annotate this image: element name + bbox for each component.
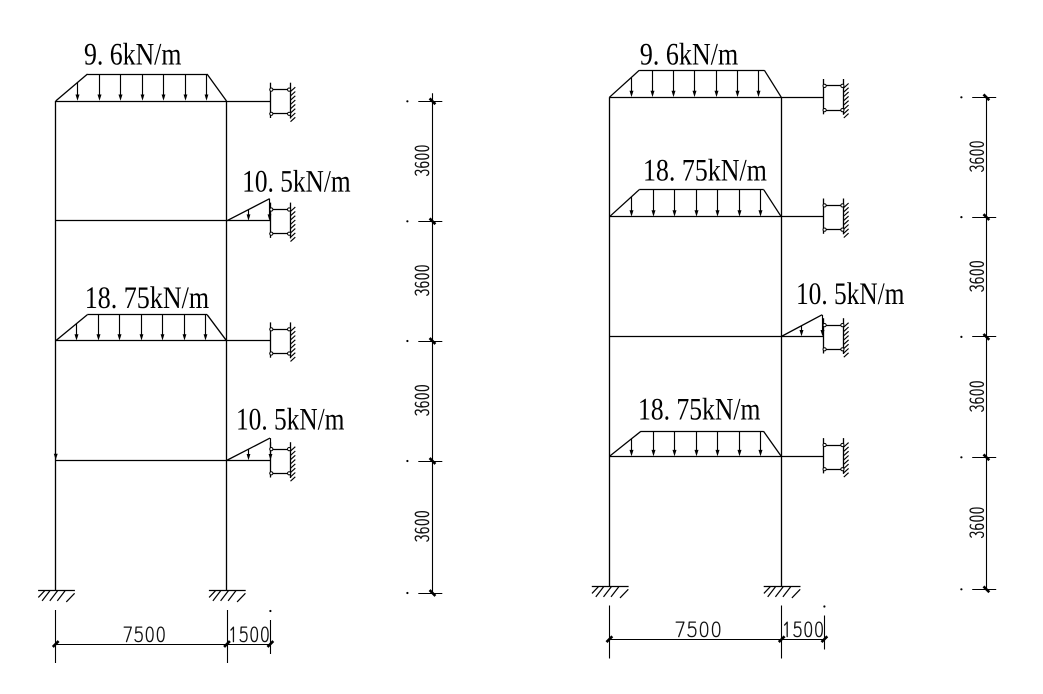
right frame: left column	[609, 97, 611, 586]
dim text 3600 (left frame bay 4)	[415, 512, 428, 541]
link support left frame level 1	[270, 442, 296, 481]
load label 9.6kN/m (right roof)	[641, 43, 738, 65]
link support right frame level 4	[823, 79, 849, 118]
load label 9.6kN/m (left roof)	[85, 43, 181, 65]
fixed support right frame right base	[764, 587, 801, 598]
dim text 3600 (right frame bay 1)	[970, 142, 983, 171]
right frame: right column	[781, 97, 783, 586]
left frame: beam level 1	[56, 460, 271, 462]
triangular load 10.5kN/m (left level 1)	[227, 438, 273, 460]
load label 10.5kN/m (right level 2)	[798, 282, 904, 304]
load label 10.5kN/m (left level 3)	[244, 170, 350, 192]
left frame: left column	[55, 101, 57, 590]
left frame: beam level 2	[56, 340, 271, 342]
right frame: beam level 1	[609, 456, 823, 458]
fixed support right frame left base	[592, 587, 629, 598]
bottom dimension line left frame	[53, 610, 273, 663]
bottom dimension line right frame	[607, 605, 828, 658]
link support right frame level 2	[823, 318, 849, 357]
right frame: beam level 2	[609, 336, 823, 338]
link support left frame level 4	[270, 83, 296, 122]
right frame: beam level 3	[609, 216, 823, 218]
load label 18.75kN/m (right level 3)	[645, 159, 766, 181]
dim text 3600 (right frame bay 2)	[970, 262, 983, 291]
fixed support left frame left base	[38, 591, 75, 602]
link support right frame level 1	[823, 438, 849, 477]
load label 18.75kN/m (right level 1)	[640, 398, 760, 420]
dim text 1500 (right frame)	[785, 622, 823, 637]
left frame: roof beam (level 4)	[56, 101, 271, 103]
triangular load 10.5kN/m (left level 3)	[227, 199, 272, 221]
link support left frame level 3	[270, 203, 296, 242]
right frame: roof beam (level 4)	[609, 97, 823, 99]
load label 18.75kN/m (left level 2)	[87, 286, 209, 308]
fixed support left frame right base	[209, 591, 246, 602]
dim text 3600 (left frame bay 1)	[415, 146, 428, 175]
link support left frame level 2	[270, 322, 296, 361]
dim text 3600 (right frame bay 3)	[970, 382, 983, 411]
triangular load 10.5kN/m (right level 2)	[781, 315, 824, 337]
distributed load 18.75kN/m (right level 3)	[609, 190, 781, 217]
distributed load 18.75kN/m (left level 2)	[56, 315, 227, 341]
dim text 1500 (left frame)	[231, 627, 268, 642]
left frame: stray arrowhead at left end of beam level 1	[54, 454, 58, 460]
link support right frame level 3	[823, 199, 849, 238]
vertical dimension line right frame	[960, 94, 996, 592]
left frame: right column	[226, 101, 228, 590]
dim text 3600 (left frame bay 3)	[415, 386, 428, 415]
distributed load 18.75kN/m (right level 1)	[609, 431, 781, 456]
dim text 3600 (right frame bay 4)	[970, 508, 983, 537]
distributed load 9.6kN/m (right roof)	[609, 70, 781, 97]
distributed load 9.6kN/m (left roof)	[56, 74, 227, 101]
dim text 7500 (right frame)	[676, 622, 720, 637]
load label 10.5kN/m (left level 1)	[238, 408, 344, 430]
dim text 3600 (left frame bay 2)	[415, 266, 428, 295]
left frame: beam level 3	[56, 220, 271, 222]
vertical dimension line left frame	[406, 93, 442, 596]
dim text 7500 (left frame)	[124, 627, 164, 642]
